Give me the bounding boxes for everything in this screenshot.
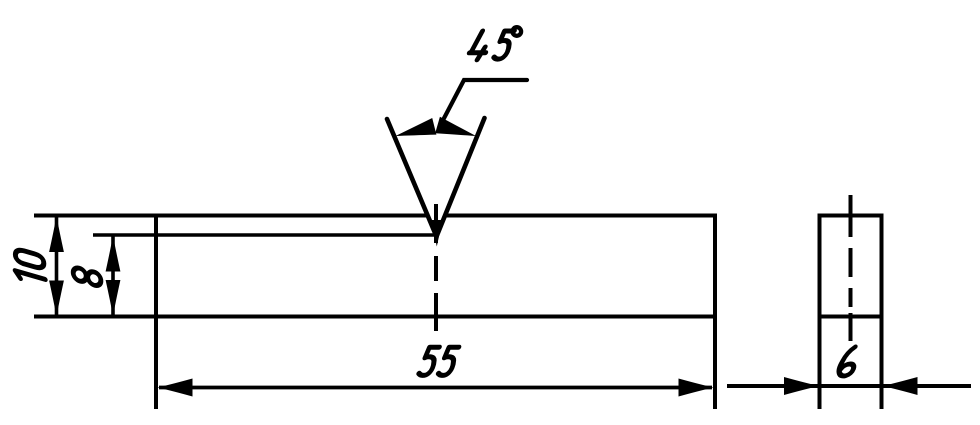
upper ring of 8 <box>73 266 86 283</box>
digit 1 of 10 <box>15 271 45 286</box>
V-notch right flank <box>437 118 485 237</box>
notch centerline dashed <box>434 204 438 331</box>
label 10 (rotated) <box>15 248 45 285</box>
digit 4 of 45 <box>467 31 491 60</box>
bar top edge right segment <box>446 214 716 218</box>
label 6 <box>837 347 859 376</box>
dimension line 55 <box>159 386 712 390</box>
second 5 of 55 <box>438 347 459 375</box>
label 8 (rotated) <box>73 266 101 287</box>
arrow 55 right <box>679 379 714 397</box>
lower ring of 8 <box>88 270 101 287</box>
dimension line 10 <box>55 217 59 316</box>
arrow 6 left <box>784 377 819 395</box>
arrow 8 top <box>106 236 121 272</box>
dimension line 8 <box>111 237 115 316</box>
dimension 6 line <box>727 384 971 388</box>
end view right edge <box>880 214 884 410</box>
arrow 10 top <box>49 216 64 252</box>
arrow 55 left <box>158 379 193 397</box>
label 55 <box>418 347 458 375</box>
notch depth line (8mm level) <box>93 233 434 237</box>
leader line for 45 degrees <box>442 80 528 123</box>
digit 0 of 10 <box>15 248 43 269</box>
end view centerline dashed <box>849 195 853 341</box>
bar right edge / extension line <box>713 214 717 410</box>
angular arrow left <box>393 118 436 144</box>
label 45 degrees <box>467 27 521 60</box>
degree symbol <box>513 27 522 36</box>
extension line left for 55 <box>154 214 158 409</box>
bar bottom edge <box>34 315 715 319</box>
arrow 8 bottom <box>106 280 121 316</box>
arrow 10 bottom <box>49 281 64 317</box>
arrow 6 right <box>883 377 918 395</box>
digit 5 of 45 <box>493 31 514 59</box>
end view bottom edge <box>818 315 884 319</box>
first 5 of 55 <box>418 347 439 375</box>
end view top edge <box>818 214 884 218</box>
bar top edge left segment <box>34 214 427 218</box>
end view left edge <box>818 214 822 410</box>
angular arrow right <box>435 117 478 145</box>
notch vertex solid tip <box>431 220 443 247</box>
V-notch left flank <box>387 119 437 237</box>
